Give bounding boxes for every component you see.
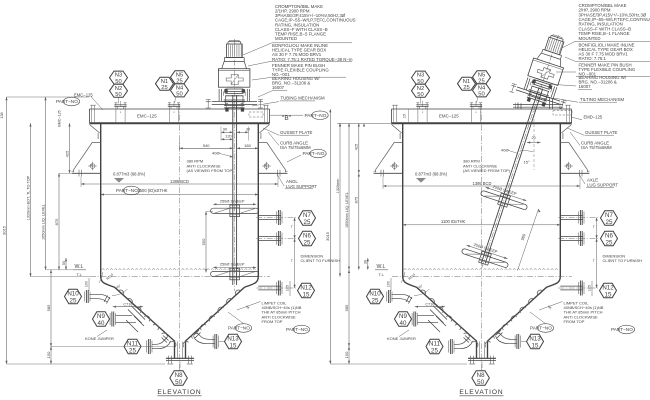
left vertical agitator gearbox neck bbox=[222, 62, 247, 69]
right tank hex N5/25 bbox=[473, 71, 491, 85]
svg-text:TILTING MECHANISM: TILTING MECHANISM bbox=[580, 97, 624, 102]
svg-text:N3: N3 bbox=[417, 73, 424, 79]
left tank hex N10/25 bbox=[65, 289, 82, 304]
left tank bottom tangent line T.L bbox=[90, 276, 270, 278]
svg-text:25: 25 bbox=[161, 85, 167, 91]
right view dim 1320mm bbox=[339, 123, 341, 276]
left vertical agitator stub flange corner blocks bbox=[225, 108, 228, 112]
right tank hex N7/25 bbox=[601, 211, 618, 226]
svg-text:MOUNTED: MOUNTED bbox=[579, 36, 601, 41]
svg-text:50: 50 bbox=[62, 261, 66, 265]
svg-text:40: 40 bbox=[98, 320, 105, 327]
svg-text:1100 IDxTHK: 1100 IDxTHK bbox=[441, 219, 466, 224]
left tank right bracket target mark bbox=[264, 164, 269, 169]
svg-text:40Ø: 40Ø bbox=[501, 148, 509, 153]
svg-text:1320mm: 1320mm bbox=[336, 179, 340, 194]
right tank hex N9/40 bbox=[395, 312, 412, 327]
svg-text:40: 40 bbox=[400, 320, 407, 327]
right tank hex N6/25 bbox=[601, 231, 618, 246]
svg-text:100: 100 bbox=[387, 281, 391, 287]
svg-text:105: 105 bbox=[286, 285, 290, 291]
right view B detail dashed box bbox=[553, 111, 572, 116]
right tank right support bracket with lug bbox=[560, 125, 587, 173]
left view dim 1320mm BOT TL TO TOP bbox=[30, 123, 32, 276]
svg-text:15: 15 bbox=[303, 291, 310, 298]
svg-text:50: 50 bbox=[115, 92, 121, 98]
svg-text:N3: N3 bbox=[115, 73, 122, 79]
svg-text:15: 15 bbox=[605, 291, 612, 298]
svg-text:N1: N1 bbox=[463, 79, 470, 85]
right tank nozzle spacing dimension line bbox=[596, 218, 598, 289]
svg-text:N4: N4 bbox=[478, 86, 486, 92]
right tank hex N12/15 bbox=[600, 283, 617, 298]
svg-text:PART−NO.: PART−NO. bbox=[228, 326, 251, 331]
right tank nozzle N9 pipe and flange bbox=[395, 318, 413, 320]
svg-text:N5: N5 bbox=[478, 72, 485, 78]
left vertical agitator stool base plate with bolts bbox=[212, 100, 257, 102]
left tank water level line W.L bbox=[102, 269, 256, 270]
left vertical agitator agitator shaft bbox=[232, 95, 234, 285]
left view dim 1650mm liquid level bbox=[45, 97, 47, 270]
svg-text:T: T bbox=[291, 259, 293, 263]
right inclined agitator stub flange corner blocks bbox=[527, 97, 531, 102]
left vertical agitator shaft entry stub flange bbox=[224, 107, 244, 109]
svg-text:1650mm LIQ. LEVEL: 1650mm LIQ. LEVEL bbox=[41, 204, 45, 240]
left vertical agitator coupling corner blocks bbox=[224, 89, 227, 93]
svg-text:50: 50 bbox=[478, 92, 484, 98]
svg-text:BMC−125: BMC−125 bbox=[58, 110, 62, 127]
svg-text:25: 25 bbox=[463, 85, 469, 91]
svg-text:250Ø SWEEP: 250Ø SWEEP bbox=[220, 199, 245, 204]
svg-text:PART−NO.: PART−NO. bbox=[116, 188, 139, 193]
left tank nozzle stub N2/N3 on flange bbox=[114, 105, 126, 107]
svg-text:W.L: W.L bbox=[75, 264, 84, 270]
left tank side nozzle N12 pipe bbox=[258, 285, 281, 287]
left vertical agitator stool legs bbox=[218, 89, 220, 101]
right tank shell wall right bbox=[559, 123, 561, 277]
right tank vessel centre line bbox=[481, 104, 483, 371]
svg-text:25: 25 bbox=[606, 239, 613, 246]
right tank water level line W.L bbox=[404, 269, 558, 270]
svg-text:ISA 75/75x6MM: ISA 75/75x6MM bbox=[581, 145, 612, 150]
svg-text:FROM TOP: FROM TOP bbox=[564, 319, 585, 324]
left vertical agitator motor adaptor flange bbox=[224, 58, 226, 62]
right inclined agitator motor adaptor flange bbox=[542, 49, 543, 53]
left vertical agitator flexible coupling bbox=[225, 95, 243, 97]
svg-text:3015: 3015 bbox=[1, 225, 6, 235]
left tank hex N5/25 bbox=[171, 71, 189, 85]
right tank hex N3/50 bbox=[412, 71, 430, 85]
right view dim 585 bbox=[348, 270, 350, 347]
right inclined agitator agitator shaft bbox=[482, 88, 539, 263]
right inclined agitator motor with cooling fins bbox=[545, 37, 564, 55]
svg-text:100: 100 bbox=[85, 281, 89, 287]
svg-text:15: 15 bbox=[532, 342, 539, 349]
svg-text:0.877m3 (68.8%): 0.877m3 (68.8%) bbox=[113, 172, 146, 177]
left tank left bracket target mark bbox=[90, 164, 95, 169]
svg-text:50: 50 bbox=[175, 379, 182, 386]
svg-text:CLIENT TO FURNISH: CLIENT TO FURNISH bbox=[603, 258, 643, 263]
svg-text:105: 105 bbox=[588, 285, 592, 291]
svg-text:25: 25 bbox=[606, 219, 613, 226]
right view overall height dim bbox=[329, 109, 331, 364]
svg-text:1395 BCD: 1395 BCD bbox=[473, 181, 492, 186]
svg-text:CLIENT TO FURNISH: CLIENT TO FURNISH bbox=[301, 258, 341, 263]
left view dim 585 bbox=[50, 270, 52, 347]
svg-text:T: T bbox=[593, 225, 595, 229]
svg-text:1320mm BOT. TL TO TOP: 1320mm BOT. TL TO TOP bbox=[26, 175, 30, 220]
right tank nozzle N13 pipe and flange bbox=[516, 334, 518, 349]
left tank hex N2/50 bbox=[110, 84, 128, 98]
svg-text:ELEVATION: ELEVATION bbox=[459, 389, 503, 396]
left vertical agitator gearbox cross boss bbox=[226, 75, 243, 85]
svg-text:PART−NO.: PART−NO. bbox=[303, 151, 326, 156]
left tank shell wall left bbox=[100, 123, 102, 277]
right tank hex N4/50 bbox=[473, 84, 491, 98]
right tank hex N1/25 bbox=[458, 77, 476, 91]
svg-text:180: 180 bbox=[244, 143, 251, 148]
svg-text:15°: 15° bbox=[524, 160, 530, 165]
right inclined agitator bearing housing bbox=[529, 86, 532, 95]
right tank left bracket target mark bbox=[392, 164, 397, 169]
left tank hex N6/25 bbox=[299, 231, 316, 246]
svg-text:RATIO: 7.75:1 RATED TORQUE−38: RATIO: 7.75:1 RATED TORQUE−38 N−m bbox=[272, 57, 353, 62]
svg-text:1500 (ID)xSTHK: 1500 (ID)xSTHK bbox=[138, 188, 168, 193]
svg-text:TUBING MECHANISM: TUBING MECHANISM bbox=[281, 96, 326, 101]
right tank left support bracket with lug bbox=[376, 125, 403, 173]
svg-text:25: 25 bbox=[304, 219, 311, 226]
left tank hex N7/25 bbox=[299, 211, 316, 226]
left vertical agitator impellers bbox=[211, 208, 259, 213]
svg-text:50: 50 bbox=[477, 379, 484, 386]
left vertical agitator bearing housing bbox=[225, 96, 227, 106]
right tank bottom outlet flange bbox=[468, 357, 496, 359]
right tank limpet coil half-pipes on cone bbox=[420, 290, 426, 296]
right inclined agitator gearbox cross boss bbox=[536, 66, 555, 81]
right inclined agitator impellers bbox=[480, 190, 527, 210]
svg-text:RATIO: 7.75:1: RATIO: 7.75:1 bbox=[579, 56, 607, 61]
svg-text:KONE JUMPER: KONE JUMPER bbox=[85, 336, 114, 341]
svg-text:425: 425 bbox=[354, 143, 359, 150]
right view dim 425 bbox=[358, 123, 360, 173]
svg-text:ELEVATION: ELEVATION bbox=[157, 389, 201, 396]
right inclined agitator gearbox neck bbox=[537, 52, 563, 66]
left tank cone bottom with knuckle bbox=[101, 277, 175, 359]
right tank right bracket target mark bbox=[566, 164, 571, 169]
left vertical agitator agitator assembly group bbox=[206, 39, 263, 291]
svg-text:875: 875 bbox=[354, 196, 359, 203]
right inclined agitator motor top cap bbox=[549, 35, 552, 37]
left tank dim 105 at N12 bbox=[289, 281, 291, 296]
left vertical agitator motor top cap bbox=[227, 42, 229, 44]
left tank side nozzle N7 pipe bbox=[258, 215, 281, 217]
svg-text:N1: N1 bbox=[161, 79, 168, 85]
right inclined agitator flexible coupling bbox=[532, 86, 549, 92]
svg-text:16007: 16007 bbox=[272, 85, 285, 90]
svg-text:138: 138 bbox=[0, 112, 4, 118]
svg-text:(AS VIEWED FROM TOP): (AS VIEWED FROM TOP) bbox=[463, 168, 511, 173]
right tank nozzle stub N2/N3 on flange bbox=[416, 105, 428, 107]
left tank hex N11/25 bbox=[124, 339, 141, 354]
right tank hex N10/25 bbox=[367, 289, 384, 304]
left view 550 dim between impellers bbox=[205, 212, 207, 273]
svg-text:GUSSET PLATE: GUSSET PLATE bbox=[280, 130, 313, 135]
svg-text:N2: N2 bbox=[417, 86, 424, 92]
svg-text:EMC−125: EMC−125 bbox=[137, 114, 157, 119]
svg-text:50: 50 bbox=[176, 92, 182, 98]
svg-text:PART−NO.: PART−NO. bbox=[611, 327, 634, 332]
svg-text:W.L: W.L bbox=[377, 264, 386, 270]
left tank bottom outlet flange bbox=[166, 357, 194, 359]
left view dim 150 bbox=[50, 347, 52, 365]
svg-text:40Ø: 40Ø bbox=[212, 151, 220, 156]
svg-text:KONE JUMPER: KONE JUMPER bbox=[387, 336, 416, 341]
right tank side nozzle N6 pipe bbox=[560, 236, 583, 238]
svg-text:N4: N4 bbox=[176, 86, 184, 92]
left tank left support bracket with lug bbox=[74, 125, 101, 173]
right tank side nozzle N7 pipe bbox=[560, 215, 583, 217]
svg-text:30: 30 bbox=[364, 260, 368, 264]
svg-text:FROM TOP: FROM TOP bbox=[262, 319, 283, 324]
left tank nozzle N9 pipe and flange bbox=[93, 318, 111, 320]
right inclined agitator stool base plate with bolts bbox=[517, 87, 560, 101]
svg-text:250Ø SWEEP: 250Ø SWEEP bbox=[220, 262, 245, 267]
left tank nozzle spacing dimension line bbox=[294, 218, 296, 289]
right view dim 150 bbox=[348, 347, 350, 365]
left tank vessel centre line bbox=[179, 104, 181, 371]
left view dim 50 at WL bbox=[65, 258, 67, 270]
left tank hex N3/50 bbox=[110, 71, 128, 85]
right inclined agitator shaft entry stub flange bbox=[527, 97, 546, 103]
svg-text:3015: 3015 bbox=[325, 231, 330, 241]
left tank outlet neck inner lines bbox=[176, 342, 178, 359]
left vertical agitator motor with cooling fins bbox=[227, 44, 243, 58]
svg-text:T: T bbox=[593, 259, 595, 263]
svg-text:T.L: T.L bbox=[379, 272, 385, 277]
svg-text:25: 25 bbox=[70, 297, 77, 304]
left tank right support bracket with lug bbox=[258, 125, 285, 173]
right tank side nozzle N12 pipe bbox=[560, 285, 583, 287]
svg-text:20: 20 bbox=[531, 136, 535, 140]
left tank hex N1/25 bbox=[156, 77, 174, 91]
svg-text:15: 15 bbox=[403, 114, 407, 118]
svg-text:425: 425 bbox=[64, 150, 69, 157]
right view 560 dim along shaft bbox=[518, 209, 539, 271]
right tank cone bottom with knuckle bbox=[403, 277, 477, 359]
svg-text:PART−NO.: PART−NO. bbox=[286, 327, 309, 332]
right tank bottom tangent line T.L bbox=[392, 276, 572, 278]
right view extension line to dims bbox=[337, 122, 392, 124]
svg-text:C710: C710 bbox=[425, 303, 434, 307]
svg-text:1385 BCD: 1385 BCD bbox=[170, 179, 189, 184]
svg-text:25: 25 bbox=[431, 347, 438, 354]
svg-text:T: T bbox=[291, 225, 293, 229]
right tank nozzle N11 pipe and flange bbox=[449, 339, 451, 354]
right tank dim 100 at N10 bbox=[390, 278, 392, 291]
left tank nozzle stub N4/N5 on flange bbox=[168, 105, 180, 107]
right tank flange end bolts bbox=[393, 105, 395, 122]
right inclined agitator agitator assembly group bbox=[454, 26, 585, 278]
right tank nozzle N10 pipe and flange bbox=[387, 290, 389, 303]
left view dim 540 bbox=[180, 147, 234, 149]
left tank hex N13/15 bbox=[225, 334, 242, 349]
left tank flange end bolts bbox=[91, 105, 93, 122]
svg-text:0.877m3 (68.8%): 0.877m3 (68.8%) bbox=[415, 172, 448, 177]
left vertical agitator gearbox housing bbox=[218, 69, 250, 88]
svg-text:N5: N5 bbox=[176, 72, 183, 78]
svg-text:15: 15 bbox=[230, 342, 237, 349]
svg-text:EMD−125: EMD−125 bbox=[584, 115, 603, 120]
svg-text:1650mm LIQ. LEVEL: 1650mm LIQ. LEVEL bbox=[345, 192, 349, 228]
svg-text:90: 90 bbox=[223, 127, 227, 131]
left view dim 425 bbox=[69, 123, 71, 173]
left tank nozzle N11 pipe and flange bbox=[147, 339, 149, 354]
right inclined agitator gearbox housing bbox=[528, 58, 564, 85]
svg-text:585: 585 bbox=[344, 304, 349, 311]
svg-text:875: 875 bbox=[54, 218, 59, 225]
right inclined agitator coupling corner blocks bbox=[532, 79, 536, 83]
right tank hex N2/50 bbox=[412, 84, 430, 98]
svg-text:25: 25 bbox=[372, 297, 379, 304]
svg-text:150: 150 bbox=[46, 351, 51, 358]
left tank nozzle N13 pipe and flange bbox=[214, 334, 216, 349]
right tank shell wall left bbox=[402, 123, 404, 277]
left tank shell wall right bbox=[257, 123, 259, 277]
svg-text:25: 25 bbox=[304, 239, 311, 246]
svg-text:N2: N2 bbox=[115, 86, 122, 92]
right view dim 30 at WL bbox=[367, 258, 369, 270]
left tank top flange ring EMC-125 bbox=[90, 108, 270, 110]
left tank dim 100 at N10 bbox=[88, 278, 90, 291]
right tank dim C710 at N9 bbox=[415, 306, 445, 308]
svg-text:T.L: T.L bbox=[77, 272, 83, 277]
right view dim 1650mm liq level bbox=[348, 123, 350, 269]
right tank hex N13/15 bbox=[527, 334, 544, 349]
right tank dim 105 at N12 bbox=[591, 281, 593, 296]
svg-text:PART−NO.: PART−NO. bbox=[56, 99, 79, 104]
svg-text:PART−NO.: PART−NO. bbox=[530, 326, 553, 331]
left view overall height dim 3015 bbox=[6, 97, 8, 364]
right tank hex N8/50 bottom outlet bbox=[481, 362, 483, 371]
left tank dim C710 at N9 bbox=[113, 306, 143, 308]
svg-text:550: 550 bbox=[201, 238, 206, 245]
svg-text:MOUNTED: MOUNTED bbox=[275, 36, 297, 41]
right tank top flange ring EMC-125 bbox=[392, 108, 572, 110]
svg-text:120: 120 bbox=[225, 135, 231, 139]
svg-text:C710: C710 bbox=[123, 303, 132, 307]
svg-text:25: 25 bbox=[129, 347, 136, 354]
left tank hex N12/15 bbox=[298, 283, 315, 298]
left view dim 1385 BCD bbox=[81, 183, 278, 185]
svg-text:(AS VIEWED FROM TOP): (AS VIEWED FROM TOP) bbox=[187, 168, 235, 173]
left tank hex N8/50 bottom outlet bbox=[179, 362, 181, 371]
svg-text:16007: 16007 bbox=[579, 84, 592, 89]
svg-text:ISA 75/75x6MM: ISA 75/75x6MM bbox=[280, 145, 311, 150]
right inclined agitator stool legs bbox=[524, 78, 528, 90]
right view dim 1395 BCD bbox=[383, 185, 580, 187]
left tank limpet coil half-pipes on cone bbox=[118, 290, 124, 296]
left view dim 875 bbox=[58, 173, 60, 269]
right tank outlet neck inner lines bbox=[478, 342, 480, 359]
svg-text:585: 585 bbox=[46, 304, 51, 311]
svg-text:GUSSET PLATE: GUSSET PLATE bbox=[585, 130, 618, 135]
svg-text:150: 150 bbox=[344, 351, 349, 358]
right agitator stool support legs bbox=[517, 103, 519, 110]
right tank nozzle stub N4/N5 on flange bbox=[470, 105, 482, 107]
svg-text:EMC−125: EMC−125 bbox=[74, 93, 93, 98]
left tank hex N4/50 bbox=[171, 84, 189, 98]
left tank side nozzle N6 pipe bbox=[258, 236, 281, 238]
left tank nozzle N10 pipe and flange bbox=[85, 290, 87, 303]
svg-text:PART−NO.: PART−NO. bbox=[305, 113, 328, 118]
svg-text:LUG SUPPORT: LUG SUPPORT bbox=[286, 184, 317, 189]
svg-text:"B": "B" bbox=[282, 115, 292, 122]
svg-text:EMC−125: EMC−125 bbox=[439, 114, 459, 119]
svg-text:540: 540 bbox=[203, 143, 210, 148]
left view dim 180 bbox=[237, 147, 259, 149]
right tank hex N11/25 bbox=[426, 339, 443, 354]
svg-text:30: 30 bbox=[246, 127, 250, 131]
svg-text:50: 50 bbox=[417, 92, 423, 98]
left tank hex N9/40 bbox=[93, 312, 110, 327]
svg-text:LUG SUPPORT: LUG SUPPORT bbox=[587, 182, 618, 187]
right agitator wedge plate on flange bbox=[513, 104, 563, 106]
right view dim 875 bbox=[358, 173, 360, 269]
